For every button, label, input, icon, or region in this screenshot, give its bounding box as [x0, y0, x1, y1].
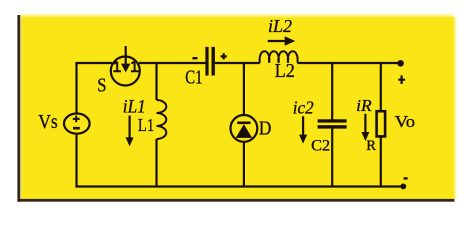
node: output negative terminal dot	[400, 184, 406, 190]
wire: C1 right plate to L2	[215, 62, 260, 64]
label Vs	[38, 111, 58, 133]
svg-text:L2: L2	[275, 61, 295, 82]
resistor R	[377, 111, 386, 136]
source Vs	[64, 114, 90, 134]
svg-text:L1: L1	[138, 115, 154, 135]
label - (C1 negative)	[192, 57, 197, 59]
arrow: iR current downward	[361, 114, 369, 141]
svg-text:D: D	[259, 119, 272, 140]
svg-text:iL2: iL2	[268, 16, 292, 36]
wire: switch S to C1 left plate	[139, 62, 206, 64]
label + (output)	[398, 75, 405, 84]
wire: C2 branch from top rail down to capacitor	[331, 62, 333, 120]
inductor L2	[260, 51, 298, 63]
label L2	[275, 61, 295, 82]
label - (output)	[404, 177, 408, 179]
wire: diode branch from top rail down to diode circle	[243, 62, 245, 115]
label S	[97, 75, 106, 97]
wire: resistor bottom to bottom rail	[380, 137, 382, 188]
arrow: iL2 current to the right	[268, 36, 296, 46]
label D	[259, 119, 272, 140]
svg-text:C2: C2	[311, 138, 330, 155]
svg-text:ic2: ic2	[293, 98, 314, 118]
wire: L1 coil bottom to bottom rail	[155, 139, 157, 188]
diode D	[231, 115, 258, 142]
svg-text:C1: C1	[185, 67, 202, 89]
wire: R branch from top rail down to resistor	[380, 62, 382, 112]
wire: top rail from left corner to switch S	[75, 62, 112, 64]
svg-text:Vs: Vs	[38, 111, 58, 133]
label iR	[356, 96, 372, 115]
label iL2	[268, 16, 292, 36]
wire: C2 bottom plate to bottom rail	[331, 128, 333, 187]
svg-text:Vo: Vo	[395, 112, 415, 131]
arrow: ic2 current downward	[299, 116, 307, 143]
wire: bottom rail	[75, 185, 403, 187]
arrow: iL1 current downward	[126, 116, 134, 147]
wire: diode bottom to bottom rail	[243, 143, 245, 188]
label iL1	[123, 97, 146, 118]
label Vo	[395, 112, 415, 131]
svg-text:iR: iR	[356, 96, 372, 115]
capacitor C1	[205, 47, 215, 76]
label + (C1 positive)	[221, 53, 227, 59]
switch S	[111, 46, 140, 86]
wire: L1 branch from top rail down to coil	[155, 62, 157, 100]
capacitor C2	[318, 119, 347, 128]
wire: left vertical from top-left corner down to Vs top	[75, 62, 77, 113]
svg-text:R: R	[366, 138, 376, 154]
label C1	[185, 67, 202, 89]
wire: from Vs bottom to bottom rail	[75, 135, 77, 188]
node: output positive terminal dot	[397, 60, 404, 67]
label C2	[311, 138, 330, 155]
label ic2	[293, 98, 314, 118]
label L1	[138, 115, 154, 135]
wire: L2 to output node dot	[297, 62, 399, 64]
inductor L1	[157, 100, 167, 139]
label R	[366, 138, 376, 154]
svg-text:S: S	[97, 75, 106, 97]
